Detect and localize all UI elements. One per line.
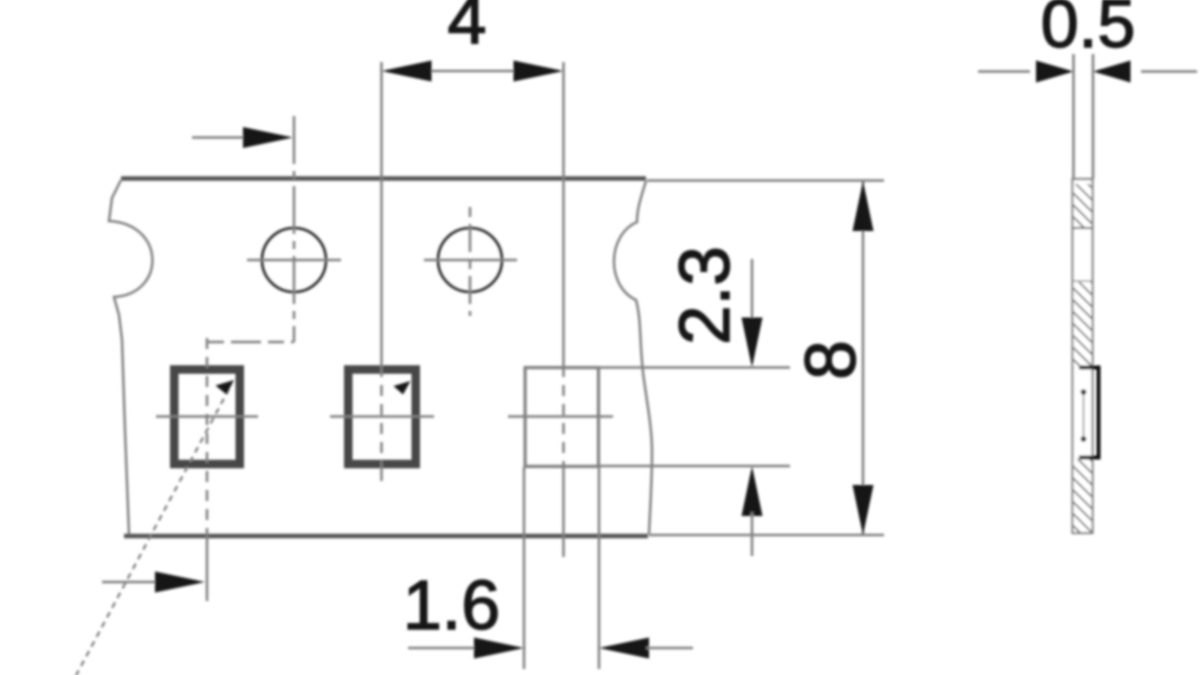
side view: pocket section (black) — [1079, 368, 1101, 458]
pocket P2 horizontal centerline — [330, 415, 434, 418]
svg-text:2.3: 2.3 — [666, 246, 745, 345]
side view: hatch band 1 — [1074, 184, 1092, 227]
right break edge — [614, 181, 652, 534]
dimension 2.3 line and arrows — [751, 259, 754, 320]
pocket P3 horizontal centerline — [508, 415, 613, 418]
dimension 2.3 extension lines — [600, 366, 790, 369]
svg-text:0.5: 0.5 — [1041, 0, 1136, 62]
side view: hatch band 3 — [1074, 459, 1092, 532]
dimension 4 extension line at pocket P3 center — [562, 62, 565, 366]
sprocket centerline arrow (top left) — [192, 136, 244, 139]
dimension 4 extension line at pocket P2 center — [380, 62, 383, 366]
side view: tape strip outline — [1073, 179, 1093, 533]
dimension 1.6 extension lines — [523, 467, 526, 669]
left break edge — [109, 180, 152, 534]
sprocket hole 1 horizontal centerline — [247, 259, 341, 262]
side view: hatch band 2 — [1074, 282, 1092, 366]
side view: pocket inner wall — [1083, 393, 1085, 438]
dimension 8 line and arrows — [862, 181, 865, 535]
tape top edge — [121, 176, 646, 181]
dimension 4 line and arrows — [430, 70, 515, 73]
dimension 1.6 line and arrows — [408, 647, 478, 650]
svg-text:1.6: 1.6 — [403, 566, 500, 644]
sprocket hole 1 vertical centerline — [293, 116, 296, 342]
side view: sprocket hole section boundary bottom — [1073, 280, 1093, 282]
sprocket hole 2 horizontal centerline — [424, 259, 517, 262]
svg-text:8: 8 — [792, 340, 871, 380]
sprocket hole 2 — [438, 228, 502, 292]
pocket P1 vertical centerline — [206, 338, 209, 530]
sprocket hole 1 — [262, 228, 326, 292]
pocket P1 horizontal centerline — [156, 415, 258, 418]
side view: dimension 0.5 line and arrows — [978, 70, 1030, 73]
pocket centerline arrow (bottom left) — [102, 581, 156, 584]
svg-text:4: 4 — [448, 0, 487, 59]
leader arrowhead at pocket P2 — [394, 381, 411, 395]
tape bottom edge — [124, 534, 648, 539]
leader line to pocket P1 — [72, 389, 229, 675]
pocket P2 — [348, 370, 416, 465]
pocket P3 (thin, at break) — [525, 368, 598, 467]
sprocket hole 2 vertical centerline — [469, 207, 472, 316]
dimension 8 extension lines — [647, 179, 884, 182]
side view: sprocket hole section boundary top — [1073, 227, 1093, 229]
pocket P1 — [174, 370, 240, 465]
side view: dimension 0.5 extension lines — [1072, 54, 1075, 179]
offset centerline (horizontal dash) — [208, 341, 294, 344]
